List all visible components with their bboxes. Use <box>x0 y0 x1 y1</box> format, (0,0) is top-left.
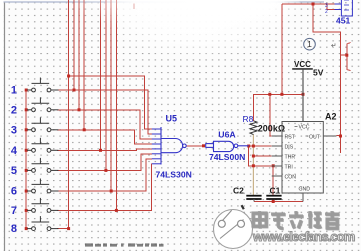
op U6A 74LS00N NAND <box>206 141 249 151</box>
svg-text:1: 1 <box>307 39 312 49</box>
wire: R8 top from rail <box>253 94 255 121</box>
wire: switch row 8 to U5 <box>57 228 70 230</box>
wire: switch row 3 to U5 <box>57 130 152 144</box>
svg-text:GND: GND <box>299 187 311 193</box>
switch S8 <box>27 216 59 230</box>
svg-text:4: 4 <box>11 145 18 157</box>
svg-text:OUT: OUT <box>309 135 321 141</box>
svg-text:RST: RST <box>285 135 296 141</box>
wire: tan net R8 bottom to C2 <box>252 135 254 196</box>
annotation circled 1 <box>304 38 337 50</box>
svg-text:VCC: VCC <box>299 125 310 131</box>
svg-text:VCC: VCC <box>294 60 311 69</box>
svg-text:3: 3 <box>11 124 17 136</box>
wire: U6A output to DIS pin <box>249 145 272 147</box>
wire: U5 output to U6A input <box>186 145 204 147</box>
555 pin labels <box>285 125 321 193</box>
svg-text:7: 7 <box>11 205 17 217</box>
wire: switch row 5 to U5 <box>57 154 152 171</box>
wire: top horizontal to 4511 <box>282 3 335 5</box>
wire: switch row 6 to U5 <box>57 159 152 191</box>
wire: vertical bus left of switches <box>25 90 27 229</box>
watermark logo circle <box>214 205 253 248</box>
svg-text:U5: U5 <box>166 114 178 124</box>
resistor R8 <box>250 121 257 135</box>
wire: jog to 4511 pin2 <box>327 4 335 10</box>
svg-text:C1: C1 <box>270 186 281 196</box>
switch row labels 1-8 <box>11 85 18 236</box>
wire: switch row 1 to U5 <box>57 90 152 134</box>
svg-text:451: 451 <box>336 16 350 26</box>
faded white region top middle <box>103 0 300 66</box>
timer A2 555 <box>272 122 337 202</box>
wire: vertical from top dot down right side <box>313 4 341 153</box>
svg-text:U6A: U6A <box>218 130 236 140</box>
wire: OUT to right edge <box>337 135 341 137</box>
op U5 74LS30N 8-input NAND <box>152 127 186 165</box>
switch S2 <box>27 97 59 111</box>
switch S3 <box>27 117 59 131</box>
svg-text:R8: R8 <box>243 114 254 124</box>
wire: branch U6A out down to TRI <box>249 146 272 166</box>
svg-text:5: 5 <box>11 165 17 177</box>
capacitor C1 <box>266 196 281 199</box>
wire: C1 riser to CON <box>272 166 274 196</box>
svg-text:8: 8 <box>11 223 17 235</box>
svg-text:A2: A2 <box>325 112 337 122</box>
svg-text:74LS00N: 74LS00N <box>209 152 245 162</box>
wire: top bundle A verticals <box>69 0 85 229</box>
wire: RST riser <box>270 94 272 136</box>
wash overlay above wires <box>74 0 270 34</box>
wire: switch row 2 to U5 <box>57 110 152 139</box>
svg-text:2: 2 <box>11 104 17 116</box>
svg-text:TRI: TRI <box>285 165 293 171</box>
wire: riser to top wire <box>281 4 283 94</box>
switches S1-S8 <box>27 78 59 231</box>
switch S1 <box>27 78 59 92</box>
switch S5 <box>27 158 59 172</box>
svg-text:1: 1 <box>11 85 17 97</box>
wire: net row8 top horizontal to U5 input 1 <box>69 76 152 129</box>
watermark text dianzifashaoyou <box>253 211 339 228</box>
4511 chip top right <box>335 0 353 16</box>
capacitor C2 <box>246 196 261 202</box>
wire: switch row 7 to U5 <box>57 164 152 211</box>
svg-text:C2: C2 <box>233 186 244 196</box>
svg-text:DIS: DIS <box>285 145 294 151</box>
wire: VCC rail <box>254 94 304 121</box>
wire: top bundle B verticals <box>101 0 117 210</box>
svg-text:5V: 5V <box>313 68 324 78</box>
wire: branch to right component <box>341 54 347 56</box>
watermark glyph highlight <box>254 212 340 229</box>
svg-text:↵: ↵ <box>331 43 336 50</box>
svg-text:CON: CON <box>285 175 297 181</box>
svg-text:2: 2 <box>325 9 328 15</box>
wire: THR branch <box>253 155 271 157</box>
svg-text:6: 6 <box>11 186 17 198</box>
switch S6 <box>27 179 59 193</box>
555 pin ticks <box>295 127 309 137</box>
wire: stub at top edge <box>133 4 135 10</box>
svg-text:200kΩ: 200kΩ <box>258 123 285 133</box>
VCC power symbol <box>292 60 324 122</box>
svg-text:www.elecfans.com: www.elecfans.com <box>252 229 355 244</box>
switch S4 <box>27 138 59 152</box>
svg-text:THR: THR <box>285 155 296 161</box>
svg-text:74LS30N: 74LS30N <box>156 169 192 179</box>
wire: switch row 4 to U5 <box>57 149 152 150</box>
component cut at right edge <box>347 43 351 71</box>
switch S7 <box>27 198 59 212</box>
bottom caption fragment <box>85 243 164 246</box>
wire: C1 bottom to ground net <box>272 199 274 202</box>
wire: ground net below caps <box>254 201 303 203</box>
